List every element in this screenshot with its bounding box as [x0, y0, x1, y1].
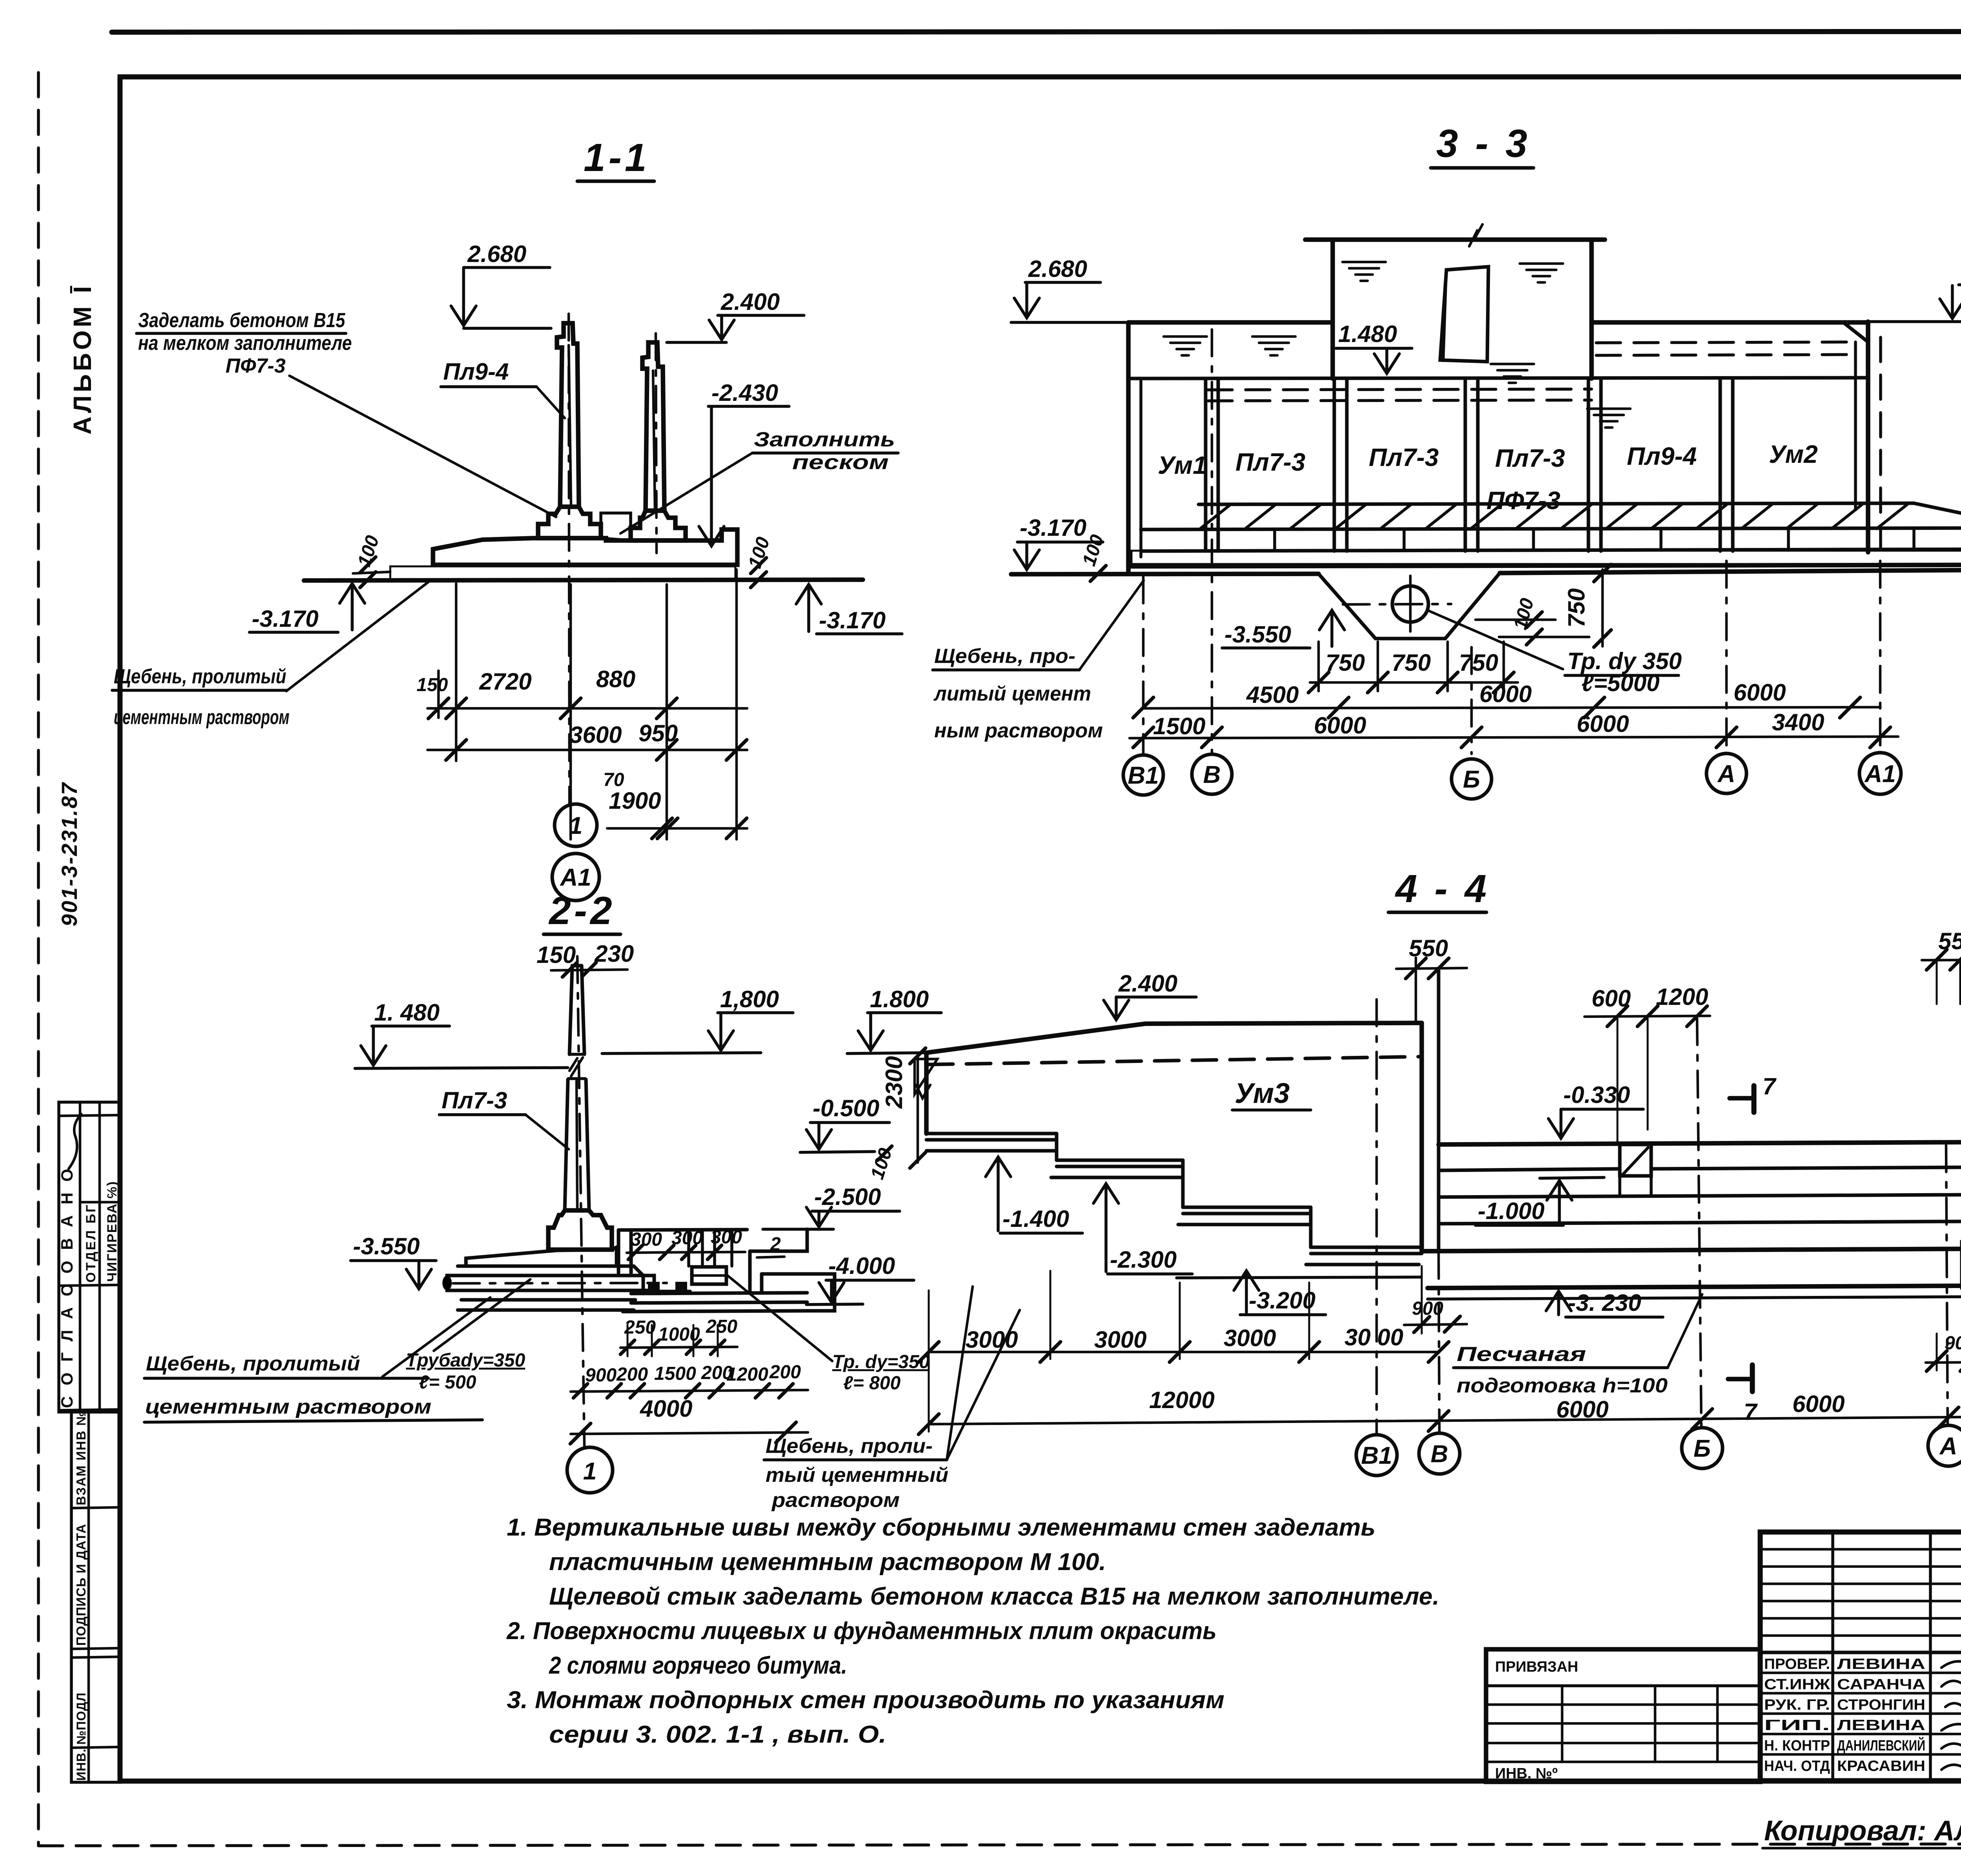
rail pads in pit	[648, 1282, 660, 1291]
ground level line left (3-3)	[1011, 321, 1130, 324]
page edge cut line left	[37, 73, 40, 1845]
pit top edge (2-2)	[618, 1230, 747, 1230]
svg-text:ОТДЕЛ БГ: ОТДЕЛ БГ	[84, 1203, 98, 1283]
section mark 7 lower	[1750, 1365, 1755, 1392]
svg-text:300: 300	[631, 1229, 662, 1250]
outer right wall (3-3)	[1866, 322, 1870, 552]
svg-text:750: 750	[1563, 588, 1590, 628]
svg-text:Ум3: Ум3	[1235, 1078, 1290, 1109]
page edge line top	[112, 31, 1961, 32]
wall at gridline В (4-4)	[1419, 1023, 1424, 1250]
svg-text:6000: 6000	[1734, 679, 1786, 706]
grid circle В1 (4-4)	[1356, 1435, 1397, 1476]
pit anchor stubs	[687, 1230, 690, 1266]
svg-text:4000: 4000	[640, 1396, 692, 1422]
svg-text:-2.500: -2.500	[814, 1184, 881, 1210]
svg-text:-2.430: -2.430	[711, 380, 778, 406]
svg-text:В: В	[1203, 761, 1221, 788]
svg-text:ПФ7-3: ПФ7-3	[226, 355, 286, 377]
svg-text:2.680: 2.680	[1028, 256, 1087, 282]
svg-text:Пл7-3: Пл7-3	[1235, 448, 1305, 476]
grid circle Б (4-4)	[1682, 1428, 1723, 1468]
signature squiggle in stamp	[69, 1114, 81, 1169]
foundation slab row (3-3)	[1141, 549, 1961, 551]
svg-text:В: В	[1431, 1441, 1448, 1468]
svg-text:Щелевой стык заделать бетон: Щелевой стык заделать бетоном класса В15…	[549, 1583, 1439, 1610]
svg-text:ЛЕВИНА: ЛЕВИНА	[1837, 1717, 1925, 1734]
svg-text:-3. 230: -3. 230	[1568, 1290, 1641, 1316]
mini dim 100 at trench	[1475, 619, 1555, 621]
svg-text:ПФ7-3: ПФ7-3	[1486, 486, 1561, 515]
pit floor slab	[631, 1293, 807, 1294]
svg-text:Б: Б	[1463, 766, 1480, 793]
svg-text:-1.000: -1.000	[1478, 1198, 1544, 1224]
svg-text:цементным раствором: цементным раствором	[114, 706, 289, 729]
svg-text:880: 880	[596, 666, 635, 692]
vertical dim 750 at trench	[1601, 570, 1604, 646]
svg-text:Пл7-3: Пл7-3	[442, 1087, 507, 1114]
svg-text:4500: 4500	[1246, 682, 1299, 708]
leader to wall foot	[289, 376, 556, 517]
section mark 7 upper	[1752, 1086, 1757, 1112]
svg-text:Заполнить: Заполнить	[754, 428, 895, 451]
svg-text:1: 1	[569, 812, 582, 839]
ground line (3-3)	[1011, 574, 1319, 574]
slab step to pit (2-2)	[634, 1266, 643, 1294]
svg-text:В1: В1	[1361, 1442, 1392, 1469]
svg-text:Б: Б	[1694, 1435, 1711, 1462]
tank walls	[1330, 240, 1335, 378]
svg-text:пластичным цементным раствор: пластичным цементным раствором М 100.	[549, 1548, 1106, 1576]
svg-text:подготовка h=100: подготовка h=100	[1457, 1374, 1668, 1397]
svg-text:6000: 6000	[1577, 711, 1629, 737]
svg-text:литый цемент: литый цемент	[933, 682, 1091, 705]
svg-text:Песчаная: Песчаная	[1457, 1343, 1586, 1366]
svg-text:2.680: 2.680	[467, 241, 526, 267]
step slab 2	[1051, 1160, 1183, 1177]
base slab (4-4 middle)	[1428, 1286, 1961, 1288]
svg-text:3000: 3000	[1224, 1325, 1276, 1351]
svg-text:1,800: 1,800	[720, 986, 779, 1012]
top edge right part (3-3)	[1592, 320, 1868, 325]
svg-text:6000: 6000	[1792, 1391, 1845, 1417]
svg-text:550: 550	[1938, 928, 1961, 954]
crushed stone layer (1-1)	[390, 566, 735, 580]
svg-text:12000: 12000	[1149, 1387, 1215, 1413]
svg-text:Ум1: Ум1	[1158, 451, 1207, 479]
roof break mark	[1469, 224, 1483, 246]
svg-text:-1.400: -1.400	[1002, 1206, 1069, 1232]
grid circle В (4-4)	[1419, 1433, 1460, 1474]
svg-text:СТРОНГИН: СТРОНГИН	[1837, 1697, 1925, 1713]
svg-text:РУК. ГР.: РУК. ГР.	[1764, 1697, 1830, 1713]
level line 1.480 (2-2)	[355, 1068, 568, 1068]
grid circle А (3-3)	[1706, 753, 1746, 793]
svg-text:1900: 1900	[609, 788, 661, 814]
svg-text:2: 2	[770, 1234, 781, 1255]
left attach table Привязан	[1486, 1649, 1760, 1782]
pit left wall	[617, 1230, 620, 1273]
svg-text:АЛЬБОМ Ī: АЛЬБОМ Ī	[68, 283, 96, 435]
svg-text:1200: 1200	[1656, 984, 1708, 1010]
svg-text:ℓ= 500: ℓ= 500	[419, 1372, 477, 1393]
wall panel Пл9-4 (left wall of 1-1)	[557, 323, 579, 507]
svg-text:ДАНИЛЕВСКИЙ: ДАНИЛЕВСКИЙ	[1837, 1736, 1925, 1754]
small upper table rows	[1760, 1548, 1961, 1551]
gridline verticals (3-3)	[1142, 577, 1145, 754]
grid circle А1 (section 1-1)	[552, 853, 599, 901]
grid circle В (3-3)	[1192, 754, 1232, 794]
svg-text:Пл9-4: Пл9-4	[1627, 442, 1697, 470]
page edge cut line bottom	[38, 1843, 1961, 1846]
wall axis (2-2)	[577, 956, 584, 1447]
svg-text:1-1: 1-1	[584, 136, 650, 180]
svg-text:7: 7	[1744, 1399, 1758, 1425]
pipe Тр dy350 circle	[1392, 586, 1428, 622]
svg-text:200: 200	[769, 1362, 801, 1383]
door leaf in tank	[1440, 267, 1488, 362]
svg-text:ЛЕВИНА: ЛЕВИНА	[1837, 1656, 1925, 1672]
svg-text:-3.550: -3.550	[1224, 621, 1291, 648]
svg-text:ПРИВЯЗАН: ПРИВЯЗАН	[1495, 1659, 1578, 1675]
ground level line right (3-3)	[1868, 320, 1961, 323]
svg-text:2-2: 2-2	[548, 889, 615, 933]
svg-text:-3.170: -3.170	[819, 607, 886, 633]
hidden gridline А1 dashed vertical	[1879, 337, 1882, 557]
grid circle 1 (section 1-1)	[555, 804, 597, 846]
grid circle В1 (3-3)	[1123, 755, 1163, 795]
svg-text:цементным раствором: цементным раствором	[145, 1396, 431, 1418]
svg-text:серии 3. 002. 1-1 , вып. О.: серии 3. 002. 1-1 , вып. О.	[549, 1721, 886, 1748]
svg-text:1200: 1200	[726, 1364, 768, 1385]
svg-text:раствором: раствором	[771, 1489, 900, 1512]
svg-text:Н. КОНТР: Н. КОНТР	[1764, 1738, 1830, 1754]
svg-text:30 00: 30 00	[1344, 1324, 1403, 1350]
ceiling line (3-3)	[1128, 378, 1868, 378]
svg-text:750: 750	[1459, 650, 1498, 676]
wall stub crossing floor (hatched)	[1620, 1145, 1651, 1176]
extension lines (1-1 dims)	[437, 671, 440, 718]
gridline verticals (4-4)	[1375, 999, 1378, 1434]
svg-text:3600: 3600	[569, 722, 622, 748]
svg-text:Щебень, пролитый: Щебень, пролитый	[146, 1352, 360, 1375]
svg-text:А: А	[1717, 761, 1735, 788]
svg-text:А: А	[1939, 1433, 1957, 1460]
svg-text:750: 750	[1326, 650, 1365, 676]
level line 2.680 (1-1)	[464, 327, 551, 330]
svg-text:901-3-231.87: 901-3-231.87	[57, 782, 82, 926]
pipe strip (2-2)	[447, 1276, 654, 1290]
svg-text:2.400: 2.400	[1118, 970, 1177, 997]
svg-text:Трубаdy=350: Трубаdy=350	[406, 1350, 525, 1371]
svg-text:ПРОВЕР.: ПРОВЕР.	[1764, 1656, 1830, 1672]
trench under tank (3-3)	[1319, 573, 1500, 639]
title block outer	[1760, 1532, 1961, 1781]
svg-text:НАЧ. ОТД: НАЧ. ОТД	[1764, 1758, 1830, 1774]
svg-text:900: 900	[585, 1365, 617, 1386]
step slab 3	[1178, 1207, 1311, 1225]
grid circle 1 (2-2)	[567, 1447, 613, 1493]
svg-text:1. Вертикальные швы между с: 1. Вертикальные швы между сборными элеме…	[507, 1514, 1375, 1541]
compartment walls (3-3)	[1204, 378, 1208, 551]
svg-text:2. Поверхности лицевых и фу: 2. Поверхности лицевых и фундаментных пл…	[506, 1618, 1217, 1645]
svg-text:-3.170: -3.170	[1020, 515, 1086, 541]
svg-text:150: 150	[537, 942, 576, 968]
svg-text:750: 750	[1392, 650, 1431, 676]
svg-text:Пл7-3: Пл7-3	[1495, 444, 1565, 472]
grid circle А1 (3-3)	[1859, 753, 1901, 794]
svg-text:Заделать бетоном В15: Заделать бетоном В15	[138, 309, 346, 332]
svg-text:-3.550: -3.550	[353, 1233, 420, 1259]
svg-text:Ум2: Ум2	[1769, 440, 1818, 468]
svg-text:4 - 4: 4 - 4	[1395, 867, 1490, 911]
svg-text:-2.300: -2.300	[1110, 1246, 1177, 1273]
wall joint detail	[569, 1053, 584, 1056]
svg-text:В1: В1	[1128, 762, 1159, 789]
svg-text:6000: 6000	[1479, 681, 1532, 707]
svg-text:250: 250	[706, 1316, 737, 1337]
hidden dashed line under top	[929, 1057, 1420, 1064]
pit right wall Z-shape	[750, 1229, 807, 1251]
svg-text:-0.330: -0.330	[1563, 1082, 1630, 1108]
step slab 4	[1306, 1247, 1422, 1265]
foundation blocks band with hatch (3-3)	[1199, 503, 1914, 504]
base line (3-3)	[1128, 565, 1961, 566]
grid circle Б (3-3)	[1452, 759, 1492, 799]
svg-text:А1: А1	[559, 864, 591, 891]
wall foot left (1-1)	[538, 507, 601, 538]
svg-text:1.800: 1.800	[870, 986, 929, 1012]
svg-text:САРАНЧА: САРАНЧА	[1837, 1676, 1925, 1693]
water marks	[1343, 262, 1386, 281]
svg-text:200: 200	[616, 1364, 648, 1385]
svg-text:ИНВ. №ПОДЛ: ИНВ. №ПОДЛ	[74, 1692, 88, 1781]
wall foot right (1-1)	[631, 511, 686, 540]
svg-text:3400: 3400	[1772, 709, 1824, 735]
svg-text:100: 100	[1510, 596, 1538, 631]
svg-text:Копировал: Алешикова: Копировал: Алешикова	[1764, 1815, 1961, 1847]
svg-text:СТ.ИНЖ: СТ.ИНЖ	[1764, 1676, 1830, 1693]
svg-text:ИНВ. №º: ИНВ. №º	[1495, 1765, 1558, 1782]
top edge left part (3-3)	[1128, 320, 1333, 325]
wall Пл7-3 (2-2)	[569, 966, 572, 1054]
raised tank (3-3) roof	[1305, 237, 1605, 242]
leader to pipe label	[1428, 610, 1563, 669]
hatched wedge at 4-4 left top	[915, 1059, 937, 1094]
svg-text:300: 300	[671, 1228, 703, 1248]
svg-text:230: 230	[594, 941, 634, 967]
svg-text:Щебень, проли-: Щебень, проли-	[766, 1435, 933, 1457]
svg-text:тый цементный: тый цементный	[766, 1464, 948, 1487]
svg-text:ВЗАМ ИНВ №: ВЗАМ ИНВ №	[74, 1410, 88, 1505]
level line 1.800 (2-2)	[602, 1053, 761, 1054]
svg-text:7: 7	[1763, 1073, 1777, 1099]
svg-text:2 слоями горячего битума.: 2 слоями горячего битума.	[549, 1652, 847, 1679]
chamfer top right corner	[1843, 322, 1868, 342]
level line 2.400 (1-1)	[667, 341, 726, 344]
small table columns	[1831, 1532, 1834, 1781]
svg-text:1.480: 1.480	[1338, 321, 1397, 347]
svg-text:ным раствором: ным раствором	[934, 719, 1103, 742]
svg-text:на мелком заполнителе: на мелком заполнителе	[138, 332, 352, 355]
svg-text:2.400: 2.400	[720, 289, 780, 315]
svg-text:3 - 3: 3 - 3	[1436, 122, 1530, 166]
svg-text:ЧИГИРЕВА ℅): ЧИГИРЕВА ℅)	[105, 1181, 120, 1282]
vertical dim 2300 (4-4 left)	[917, 1054, 919, 1163]
svg-text:-3.170: -3.170	[252, 606, 318, 632]
svg-text:Пл9-4: Пл9-4	[443, 358, 509, 385]
svg-text:3000: 3000	[1094, 1326, 1146, 1353]
grid circle А (4-4)	[1928, 1425, 1961, 1466]
sand pocket between walls (Заполнить песком)	[601, 513, 631, 540]
svg-text:-4.000: -4.000	[828, 1253, 895, 1279]
svg-text:1. 480: 1. 480	[374, 999, 440, 1026]
svg-text:2300: 2300	[881, 1056, 907, 1109]
wall right (1-1)	[642, 342, 664, 511]
svg-text:ГИП.: ГИП.	[1764, 1717, 1830, 1734]
hidden ceiling edges dashed	[1208, 389, 1592, 390]
svg-text:Тр. dy=350: Тр. dy=350	[832, 1352, 930, 1372]
outer left wall (3-3)	[1126, 322, 1131, 573]
pipe sleeve block in pit	[692, 1267, 726, 1284]
signatures	[1941, 1659, 1961, 1669]
svg-text:ℓ= 800: ℓ= 800	[843, 1373, 901, 1394]
approval stamp table upper	[59, 1102, 120, 1412]
svg-text:Пл7-3: Пл7-3	[1369, 443, 1439, 471]
svg-text:Щебень, про-: Щебень, про-	[934, 645, 1075, 668]
step slab 1	[926, 1134, 1057, 1151]
hidden top edges dashed right part	[1596, 342, 1851, 343]
svg-text:1500: 1500	[1153, 713, 1205, 739]
svg-text:КРАСАВИН: КРАСАВИН	[1837, 1758, 1925, 1774]
svg-text:С О Г Л А С О В А Н О: С О Г Л А С О В А Н О	[58, 1166, 76, 1408]
svg-text:1: 1	[583, 1458, 597, 1485]
svg-text:6000: 6000	[1314, 712, 1366, 739]
wall center axis (1-1)	[569, 314, 569, 803]
ground line (1-1)	[304, 580, 863, 580]
left edge wall (4-4)	[924, 1053, 929, 1134]
svg-text:300: 300	[711, 1227, 742, 1248]
svg-text:Щебень, пролитый: Щебень, пролитый	[114, 665, 286, 688]
svg-text:А1: А1	[1864, 761, 1896, 788]
svg-text:3. Монтаж подпорных стен пр: 3. Монтаж подпорных стен производить по …	[507, 1687, 1224, 1714]
svg-text:1500: 1500	[654, 1363, 696, 1384]
foundation slab stack (2-2)	[466, 1247, 617, 1266]
Ум3 structure top edge	[926, 1023, 1422, 1053]
foundation slab (1-1)	[433, 530, 737, 565]
svg-text:ℓ=5000: ℓ=5000	[1581, 670, 1659, 696]
crushed stone strip (3-3)	[1131, 551, 1961, 564]
base sand line under steps	[1177, 1277, 1421, 1278]
svg-text:-0.500: -0.500	[813, 1095, 879, 1121]
wall base flare (2-2)	[548, 1210, 612, 1250]
svg-text:2720: 2720	[479, 668, 531, 695]
lower margin stamp table	[71, 1412, 120, 1782]
svg-text:150: 150	[417, 675, 448, 695]
middle floor slab lines (4-4)	[1439, 1142, 1961, 1145]
right end slope of block band	[1914, 503, 1961, 528]
svg-text:ПОДПИСЬ И ДАТА: ПОДПИСЬ И ДАТА	[74, 1524, 88, 1646]
